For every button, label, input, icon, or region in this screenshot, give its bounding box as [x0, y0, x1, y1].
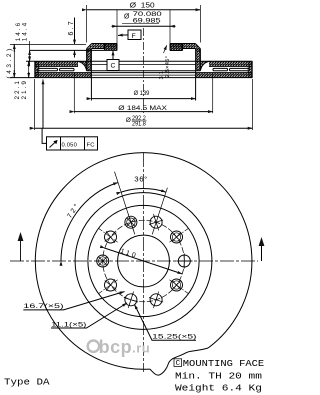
mounting face line / boss bottom: [30, 49, 183, 51]
datum C box: [107, 60, 119, 71]
runout frame leader elbow: [42, 128, 46, 143]
dim 150 extension left: [86, 5, 88, 43]
dim dia110 diagonal line: [105, 248, 182, 274]
vent vane bar 1 left: [38, 68, 58, 70]
dim 14.6 arrows: [29, 49, 31, 51]
hole at 288deg: [149, 293, 163, 307]
hole at 72deg: [149, 215, 163, 229]
dimension dia292.2 line: [35, 127, 253, 129]
ring top surface line: [26, 60, 253, 62]
chamfer leader line: [164, 45, 167, 53]
svg-text:Ø: Ø: [126, 117, 131, 124]
neck fillet hatch right: [200, 61, 210, 70]
svg-text:15.25(×5): 15.25(×5): [152, 334, 196, 341]
friction ring top plate hatch right: [209, 61, 253, 66]
dimension dia184.5 line: [74, 111, 212, 113]
dimension dia150 line: [87, 9, 201, 11]
mounting face datum box: [174, 359, 182, 367]
ring rim left edge: [34, 61, 36, 77]
rotation arrow right: [261, 243, 263, 261]
label chamfer rotated: [159, 56, 171, 80]
svg-text:bcp.ru: bcp.ru: [99, 337, 151, 357]
center bore dia70: [118, 235, 170, 287]
hat wall inner edge left + dia139 extension: [90, 49, 92, 101]
svg-text:2.5×45°: 2.5×45°: [165, 56, 171, 78]
label 14.6 14.4 rotated: [15, 21, 29, 41]
angular dim 36deg radial at 72: [152, 188, 167, 235]
dim 292 extension right: [252, 79, 254, 130]
hub boss hatch left: [105, 44, 118, 51]
dim 292 extension left: [34, 79, 36, 130]
dimension dia70 line: [117, 25, 170, 27]
hat wall outer edge right: [199, 49, 201, 71]
dim 150 extension right: [199, 5, 201, 43]
dim 70 extension left: [116, 10, 118, 44]
hole at 108deg: [125, 216, 137, 228]
vent vane bar 2 right: [230, 68, 250, 70]
hat flange top line: [92, 43, 196, 45]
friction ring bottom plate hatch right: [196, 73, 253, 78]
angular dim 72deg arc: [61, 183, 118, 262]
leader 16.7: [23, 292, 124, 310]
leader 11.1: [51, 303, 127, 328]
hat flange hatch left: [92, 44, 117, 49]
hat interior wall bottom line: [87, 70, 201, 72]
dim 70 extension right: [169, 10, 171, 44]
svg-text:291.8: 291.8: [132, 121, 147, 127]
datum C leader: [112, 51, 114, 60]
hub boss outline right: [170, 44, 183, 51]
dim 22.1 arrows: [28, 61, 30, 67]
label 72deg rotated: [65, 201, 81, 220]
svg-text:Min. TH 20 mm: Min. TH 20 mm: [175, 371, 262, 381]
top plate bottom line left: [35, 65, 78, 67]
rotation arrow left: [20, 238, 22, 261]
top plate bottom line right: [209, 65, 252, 67]
dim 6.7 shaft bottom: [74, 50, 76, 57]
svg-text:36°: 36°: [134, 175, 148, 183]
radial tick marks through holes: [93, 214, 195, 308]
hat flange outer edge right: [195, 44, 200, 49]
friction ring rim cap hatch right: [248, 61, 253, 77]
svg-text:Ø 139: Ø 139: [134, 90, 150, 97]
hat wall hatch right: [196, 49, 201, 71]
svg-text:Weight 6.4 Kg: Weight 6.4 Kg: [175, 383, 262, 393]
svg-text:11.1(×5): 11.1(×5): [51, 322, 86, 329]
hat wall hatch left: [87, 49, 92, 71]
svg-text:Type DA: Type DA: [4, 378, 50, 388]
friction ring bottom plate hatch left: [35, 73, 92, 78]
ring rim right edge: [251, 61, 253, 77]
runout leader arrow to ring bottom: [42, 80, 44, 129]
hat interior line 3: [91, 74, 195, 76]
neck fillet curve right: [200, 61, 210, 70]
dim 14.6/14.4 line: [29, 41, 31, 66]
hat flange bottom / wall top line: [92, 48, 196, 50]
angular dim 36deg arc: [121, 189, 166, 193]
svg-text:C: C: [176, 360, 181, 368]
dim 184.5 extension right: [212, 73, 214, 113]
svg-text:16.7(×5): 16.7(×5): [23, 303, 63, 310]
hub boss outline left: [105, 44, 118, 51]
hat interior line 1: [91, 64, 195, 66]
watermark logo: [88, 341, 99, 352]
datum F leader: [118, 34, 128, 37]
svg-text:21.9: 21.9: [21, 79, 28, 99]
svg-text:6.7: 6.7: [68, 19, 75, 35]
hole at 36deg: [171, 231, 183, 243]
vent vane bar 2 left: [60, 68, 75, 70]
bolt holes: [93, 214, 195, 308]
circle dia150: [88, 205, 199, 316]
neck fillet curve left: [77, 61, 87, 70]
label 22.1 21.9 rotated: [14, 79, 28, 99]
dimension dia139 line: [91, 98, 195, 100]
hole at 252deg: [124, 293, 138, 307]
hat top extension line: [10, 43, 86, 45]
mid plate line full: [35, 72, 252, 74]
svg-text:Ø 150: Ø 150: [130, 3, 155, 10]
hat wall inner edge right + dia139 extension: [195, 49, 197, 101]
svg-text:FC: FC: [87, 143, 95, 149]
dim 184.5 extension left: [73, 73, 75, 113]
hole at 144deg: [105, 231, 117, 243]
hat flange hatch right: [170, 44, 195, 49]
runout feature control frame: [47, 137, 98, 150]
hub boss hatch right: [170, 44, 183, 51]
dim 43.2 arrows: [13, 44, 15, 52]
label 43.2 rotated: [6, 46, 13, 78]
svg-text:C: C: [111, 63, 117, 70]
vent vane bar 1 right: [213, 68, 228, 70]
dim 22.1/21.9 line: [28, 61, 30, 77]
label 110 rotated: [119, 248, 138, 260]
hat wall outer edge left: [86, 49, 88, 71]
dim 43.2 line: [13, 44, 15, 77]
leader 15.25: [135, 305, 197, 341]
bolt circle dia110 dashed: [103, 220, 185, 302]
svg-text:14.4: 14.4: [22, 21, 29, 41]
friction ring top plate hatch left: [35, 61, 78, 66]
svg-text:F: F: [132, 33, 138, 40]
datum F box: [128, 30, 141, 40]
label 6.7 rotated: [68, 19, 75, 35]
hole at 180deg: [97, 255, 109, 267]
ring bottom surface line: [10, 77, 253, 79]
centerline axis of section: [143, 28, 145, 113]
hat flange outer edge left: [87, 44, 92, 49]
underline 69.985: [122, 23, 159, 25]
circle dia184.5: [75, 193, 212, 330]
break wavy line: [150, 348, 208, 375]
svg-text:Ø 184.5 MAX: Ø 184.5 MAX: [118, 105, 167, 112]
runout symbol arrow: [50, 141, 58, 148]
hole at 0deg: [177, 254, 192, 269]
vertical centerline: [143, 153, 145, 372]
neck fillet hatch left: [77, 61, 87, 70]
angular dim 36deg radial at 108: [115, 172, 135, 235]
svg-text:MOUNTING FACE: MOUNTING FACE: [183, 359, 264, 369]
outer disc circle with break: [35, 153, 252, 370]
svg-text:Ø: Ø: [124, 14, 130, 21]
friction ring rim cap hatch left: [35, 61, 40, 77]
hole at 324deg: [171, 279, 183, 291]
dim 6.7 shaft top: [74, 18, 76, 45]
hole at 216deg: [105, 279, 117, 291]
svg-text:(43.2): (43.2): [6, 46, 13, 78]
horizontal centerline: [10, 260, 258, 262]
svg-text:0.050: 0.050: [62, 143, 78, 149]
